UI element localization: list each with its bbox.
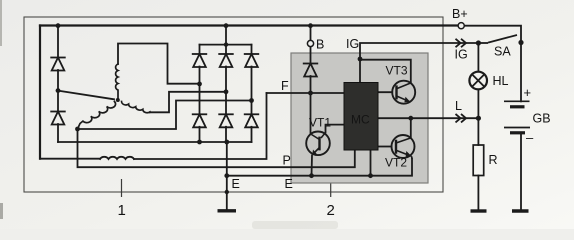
wire: B+ node to battery feed [465,26,522,43]
diode VD1 (bridge top leg1) [193,54,207,67]
stator phase W coil (lower-right) [122,102,151,113]
svg-text:E: E [232,177,240,191]
wire: L node to resistor [477,118,479,145]
node: VT1 emitter on E line [309,173,314,178]
terminal B wire [310,26,312,64]
node: F diode junction [308,91,313,96]
svg-text:IG: IG [455,48,468,62]
transistor VT1 [306,132,330,156]
svg-text:B: B [316,38,324,52]
connector chevrons L [456,114,467,122]
svg-text:HL: HL [493,74,509,88]
svg-text:VT1: VT1 [309,116,331,130]
svg-text:–: – [526,130,534,145]
node: E frame crossing [225,190,229,194]
wire: MC to VT3 base [378,91,392,93]
stator phase V coil (lower-left) [78,102,116,130]
transistor VT2 [392,135,415,159]
battery GB [504,101,530,133]
node: IG branch [358,57,363,62]
svg-text:MC: MC [351,113,370,127]
diode VD4 (bridge bottom leg1) [193,114,207,127]
wire: bridge positive riser [225,26,227,45]
terminal B (circle) [307,40,313,46]
wire: VT1 emitter to E line [311,156,314,176]
wire: ground bus [58,141,252,143]
wire: top diode stubs [200,45,252,54]
svg-text:P: P [283,154,291,168]
wire: bridge mid segments [200,67,252,115]
wire: neutral diode to ground bus [57,91,59,142]
leader line for label 1 [121,179,123,197]
node: neutral diode midpoint [56,88,61,93]
wire: alternator left edge (B+ to field winding) [39,26,41,159]
wire: phase U to bridge leg 1 [118,44,200,84]
diode VD9 (regulator B diode) [304,64,318,77]
node: ground bus leg1 [197,140,202,145]
diode VD3 (bridge top leg3) [245,54,259,67]
wire: phase W to bridge leg 2 [150,92,226,113]
node: top bus left [56,23,61,28]
wire: main B+ bus (top) [40,24,458,26]
svg-text:+: + [524,85,532,100]
svg-text:F: F [281,79,289,93]
node: IG lamp junction [476,40,481,45]
svg-text:B+: B+ [452,7,468,21]
alternator housing box (thin outer frame) [24,17,443,192]
node: switch right terminal [518,40,523,45]
regulator unit box 2 (gray panel) [291,53,428,183]
diode VD7 (neutral upper) [51,58,65,71]
node: top bus B terminal [308,23,313,28]
svg-text:1: 1 [118,202,126,219]
wire: MC to VT1 base [326,125,345,133]
resistor R [473,145,484,176]
diode VD8 (neutral lower) [51,112,65,125]
wire: bridge bottoms to ground bus [200,127,252,142]
svg-text:VT2: VT2 [385,156,407,170]
ground (resistor R) [471,209,487,212]
wire: L line from MC to lamp node [378,117,478,119]
wire: lamp node to switch node [477,43,479,72]
node: bridge mid leg3 [249,98,254,103]
wire: battery stem [520,43,522,210]
svg-text:L: L [455,99,462,113]
wire: bridge top connector bar [200,44,252,46]
node: top bus bridge [224,23,229,28]
wire: E ground stem [226,142,228,210]
node: ground bus E stem [224,140,229,145]
svg-text:E: E [285,177,293,191]
svg-text:R: R [489,153,498,167]
diode VD6 (bridge bottom leg3) [245,114,259,127]
svg-text:IG: IG [346,37,359,51]
node: E junction [224,173,229,178]
wire: lamp to L node [477,90,479,119]
diode VD5 (bridge bottom leg2) [219,114,233,127]
svg-text:2: 2 [327,202,335,219]
switch SA [478,35,517,43]
node: bridge mid leg2 [224,89,229,94]
transistor VT3 [392,81,415,104]
scan edge artifact left [0,0,2,46]
terminal B+ (circle) [458,23,464,29]
wire: IG input into regulator [360,43,478,59]
node: bridge mid leg1 [197,82,202,87]
wire: F line into regulator [267,92,345,94]
ground (alternator E) [218,209,237,212]
leader line for label 2 [330,184,332,198]
wire: phase V to bridge leg 3 [78,101,252,130]
ground (battery GB) [512,209,529,212]
wire: field winding top line [40,158,100,160]
node: L lamp resistor junction [476,116,481,121]
lamp HL [469,72,487,90]
node: MC ground on E line [368,173,373,178]
wire: MC bottom to E line [370,150,372,176]
node: phase V tap [75,127,80,132]
diode VD2 (bridge top leg2) [219,54,233,67]
node: L VT3 emitter junction [408,116,413,121]
rotor field winding coil [100,157,134,159]
wire: diode to F node [310,76,312,93]
wire: resistor to ground [477,176,479,210]
wire: star neutral to diode pair [58,91,114,100]
wire: VT2 collector riser [410,118,412,138]
wire: neutral diode column top [57,26,59,58]
node: star center [116,98,120,102]
node: bridge top connector junction [224,42,228,46]
wire: IG branch to VT3 collector [360,60,411,83]
svg-text:VT3: VT3 [386,64,408,78]
wire: phase V tap to regulator P [78,129,355,167]
wire: neutral diodes midpoint [57,70,59,91]
wire: E line to regulator [227,159,412,176]
microcircuit MC [344,83,378,151]
wire: IG branch to MC [359,59,361,83]
wire: field winding to F riser [134,93,267,159]
wire: MC to VT2 base [378,146,392,148]
svg-text:SA: SA [494,45,511,59]
connector chevrons IG [456,39,467,47]
wire: F node to VT1 collector [310,93,312,134]
svg-text:GB: GB [533,112,551,126]
faint caption smudge (scan artifact) [252,221,338,229]
stator phase U coil (vertical) [116,64,118,99]
